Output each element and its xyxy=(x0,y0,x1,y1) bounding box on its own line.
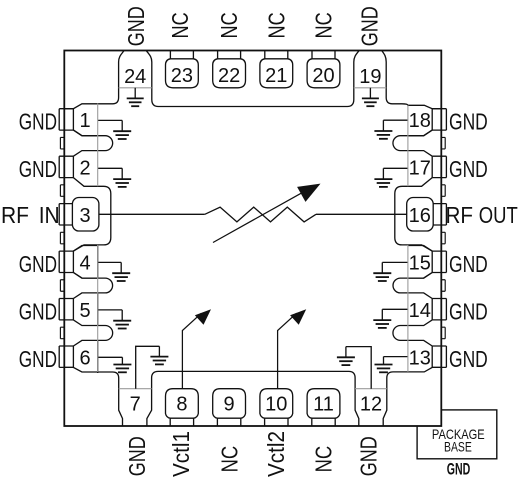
package outline xyxy=(64,51,441,427)
svg-text:GND: GND xyxy=(356,6,382,46)
svg-text:15: 15 xyxy=(409,252,431,274)
svg-text:9: 9 xyxy=(224,394,235,416)
lead frame tab between pins 3 and 4 xyxy=(60,232,64,244)
pin 20 pad xyxy=(307,51,340,88)
wire pin 12 to ground xyxy=(346,347,371,389)
pin 17 pad xyxy=(432,156,446,177)
lead frame tab between pins 15 and 14 xyxy=(441,280,445,292)
ground pin 1 xyxy=(121,120,123,131)
clearance pocket around pin 16 xyxy=(395,178,432,252)
pin 4 pad xyxy=(59,246,97,279)
svg-text:22: 22 xyxy=(218,65,240,87)
wire pin 4 to ground xyxy=(98,261,122,263)
svg-text:6: 6 xyxy=(79,347,90,369)
svg-text:GND: GND xyxy=(449,346,488,372)
pin 21 pad xyxy=(260,51,293,88)
ground pin 13 xyxy=(383,357,385,365)
svg-text:12: 12 xyxy=(360,394,382,416)
svg-text:BASE: BASE xyxy=(444,439,472,454)
cavity boundary bottom (between pins 7 and 12) xyxy=(152,371,356,378)
svg-text:17: 17 xyxy=(409,158,431,180)
ground pin 14 xyxy=(381,309,383,320)
ground pin 2 xyxy=(121,168,123,179)
svg-text:GND: GND xyxy=(123,6,149,46)
pin 14 pad xyxy=(432,299,446,320)
svg-text:NC: NC xyxy=(167,12,193,38)
pin 12 pad xyxy=(355,378,359,426)
svg-text:GND: GND xyxy=(449,298,488,324)
pin 9 pad xyxy=(213,389,246,426)
corner web bottom-right / pin 12 right side / pin 13 bottom xyxy=(383,367,441,426)
svg-text:GND: GND xyxy=(124,436,150,476)
pin 19 pad xyxy=(354,51,359,100)
svg-text:NC: NC xyxy=(311,446,337,473)
wire pin 7 to ground xyxy=(136,346,160,388)
lead frame finger between pins 4 and 5 xyxy=(73,273,112,299)
svg-text:GND: GND xyxy=(449,109,488,135)
variable attenuator resistor body xyxy=(205,207,316,222)
wire pin 15 to ground xyxy=(382,261,408,263)
svg-text:NC: NC xyxy=(217,446,243,473)
lead frame finger between pins 14 and 13 xyxy=(393,320,432,346)
lead frame tab between pins 2 and 3 xyxy=(60,185,64,197)
control arrow from pin 10 (Vctl2) xyxy=(278,313,297,389)
svg-text:NC: NC xyxy=(311,12,337,38)
ground pin 12 xyxy=(345,347,347,358)
cavity boundary top (between pins 24 and 19) xyxy=(152,100,354,107)
ground pin 5 xyxy=(121,310,123,321)
svg-text:10: 10 xyxy=(265,394,287,416)
svg-text:24: 24 xyxy=(124,66,146,88)
pin 11 pad xyxy=(307,389,340,426)
wire pin 5 to ground xyxy=(98,309,123,311)
wire attenuator to RF OUT (pin 16) xyxy=(316,213,407,215)
svg-text:18: 18 xyxy=(409,110,431,132)
svg-text:1: 1 xyxy=(79,110,90,132)
pin 1 pad xyxy=(59,109,97,136)
svg-text:GND: GND xyxy=(449,251,488,277)
lead frame finger between pins 18 and 17 xyxy=(393,130,432,156)
pin 6 pad xyxy=(59,346,73,367)
pad boundary line left (gray) xyxy=(97,104,99,373)
clearance pocket around pin 3 xyxy=(73,178,110,252)
pad boundary line right (gray) xyxy=(407,105,409,372)
wire pin 17 to ground xyxy=(383,167,408,169)
pin 5 pad xyxy=(59,299,73,320)
corner web top-left / pin 24 left side / pin 1 top xyxy=(64,51,124,109)
svg-text:Vctl1: Vctl1 xyxy=(168,431,194,477)
wire pin 6 to ground xyxy=(98,356,123,358)
pin 23 pad xyxy=(166,51,199,88)
svg-text:GND: GND xyxy=(19,251,57,277)
package base (exposed pad) box xyxy=(417,410,497,459)
wire pin 13 to ground xyxy=(384,356,408,358)
ground pin 18 xyxy=(382,120,384,131)
svg-text:OUT: OUT xyxy=(479,202,518,228)
svg-text:GND: GND xyxy=(19,109,57,135)
svg-text:NC: NC xyxy=(216,12,242,38)
wire pin 14 to ground xyxy=(382,308,408,310)
lead frame tab between pins 16 and 15 xyxy=(441,232,445,244)
variable attenuator arrow xyxy=(213,192,303,242)
pin 18 pad xyxy=(408,109,447,136)
svg-text:21: 21 xyxy=(265,65,287,87)
wire pin 2 to ground xyxy=(98,167,123,169)
pin 16 pad (RF OUT) xyxy=(433,204,446,225)
svg-text:4: 4 xyxy=(79,252,90,274)
wire pin 18 to ground xyxy=(383,119,408,121)
svg-text:5: 5 xyxy=(79,300,90,322)
pin 24 pad xyxy=(146,51,151,100)
corner web top-right / pin 19 right side / pin 18 top xyxy=(382,51,441,109)
svg-text:13: 13 xyxy=(409,347,431,369)
lead frame tab between pins 4 and 5 xyxy=(60,280,64,292)
lead frame finger between pins 5 and 6 xyxy=(73,320,112,346)
svg-text:IN: IN xyxy=(39,202,60,228)
pin 22 pad xyxy=(213,51,246,88)
control arrow from pin 8 (Vctl1) xyxy=(182,313,201,389)
ground pin 15 xyxy=(381,262,383,273)
svg-text:16: 16 xyxy=(409,205,431,227)
ground pin 24 xyxy=(134,88,136,99)
svg-text:14: 14 xyxy=(409,300,431,322)
ground pin 6 xyxy=(121,357,123,364)
svg-text:7: 7 xyxy=(130,394,141,416)
corner web bottom-left / pin 7 left side / pin 6 bottom xyxy=(64,367,122,426)
pin 2 pad xyxy=(59,156,73,177)
svg-text:GND: GND xyxy=(355,436,381,476)
svg-text:GND: GND xyxy=(447,460,471,478)
ground pin 19 xyxy=(369,88,371,99)
svg-text:3: 3 xyxy=(79,205,90,227)
lead frame tab between pins 18 and 17 xyxy=(441,137,445,149)
svg-text:RF: RF xyxy=(446,202,474,228)
pin 10 pad xyxy=(260,389,293,426)
svg-text:GND: GND xyxy=(19,298,57,324)
svg-text:11: 11 xyxy=(313,394,334,416)
ground pin 4 xyxy=(120,262,122,273)
svg-text:GND: GND xyxy=(19,156,57,182)
svg-text:19: 19 xyxy=(359,66,381,88)
svg-text:Vctl2: Vctl2 xyxy=(263,431,289,477)
lead frame finger between pins 15 and 14 xyxy=(393,273,432,299)
svg-text:GND: GND xyxy=(449,156,488,182)
wire pin 1 to ground xyxy=(98,119,123,121)
svg-text:2: 2 xyxy=(79,158,90,180)
svg-text:23: 23 xyxy=(171,65,193,87)
lead frame tab between pins 5 and 6 xyxy=(60,327,64,339)
pin 8 pad xyxy=(166,389,199,426)
pin 15 pad xyxy=(408,246,447,279)
ground pin 7 xyxy=(158,346,160,356)
lead frame tab between pins 17 and 16 xyxy=(441,185,445,197)
svg-text:20: 20 xyxy=(312,65,334,87)
lead frame tab between pins 14 and 13 xyxy=(441,327,445,339)
svg-text:RF: RF xyxy=(1,202,29,228)
svg-text:8: 8 xyxy=(176,394,187,416)
lead frame finger between pins 1 and 2 xyxy=(73,130,112,156)
wire RF IN (pin 3) to attenuator xyxy=(99,213,205,215)
svg-text:NC: NC xyxy=(263,12,289,38)
svg-text:GND: GND xyxy=(19,346,57,372)
pin 3 pad (RF IN) xyxy=(59,204,72,225)
pin 13 pad xyxy=(432,346,446,367)
lead frame tab between pins 1 and 2 xyxy=(60,137,64,149)
ground pin 17 xyxy=(382,168,384,179)
pin 7 pad xyxy=(147,378,152,426)
